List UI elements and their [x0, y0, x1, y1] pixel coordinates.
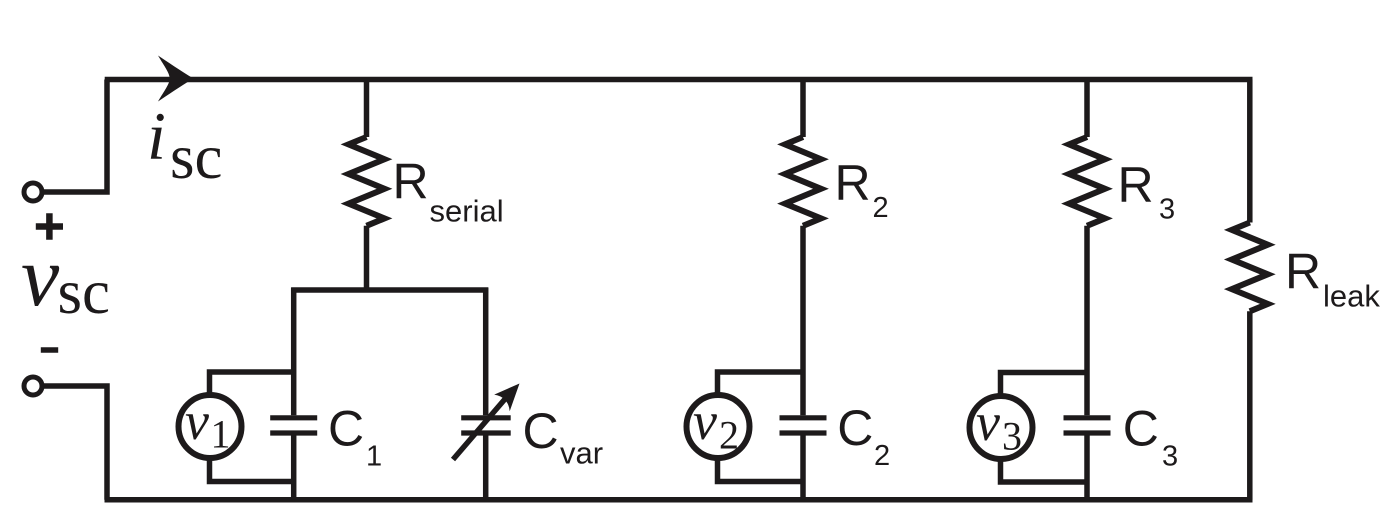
wire R2 top stub [800, 80, 806, 138]
wire lower-left terminal lead [44, 386, 107, 500]
wire right branch upper segment [1247, 80, 1253, 223]
wire C1/C_var box top [291, 287, 488, 293]
voltmeter v3 circle [970, 396, 1033, 459]
svg-text:sc: sc [58, 257, 110, 327]
svg-text:3: 3 [1002, 414, 1022, 459]
voltmeter v1 circle [179, 395, 242, 458]
resistor R2 [785, 137, 821, 226]
wire v2 meter top lead [718, 372, 804, 394]
svg-text:sc: sc [170, 122, 222, 192]
voltmeter v2 circle [687, 395, 750, 458]
terminal upper-left open circle [24, 183, 42, 201]
wire C3 to bottom rail [1084, 436, 1090, 500]
resistor R3 [1069, 137, 1105, 226]
svg-text:i: i [147, 98, 166, 174]
capacitor C_var arrowhead [494, 384, 519, 412]
minus sign [41, 347, 58, 353]
wire C2 to bottom rail [800, 436, 806, 500]
svg-text:R: R [1285, 243, 1321, 299]
wire C1 branch lower [291, 436, 297, 500]
svg-text:C: C [1123, 401, 1159, 457]
svg-text:3: 3 [1159, 194, 1175, 226]
wire upper-left terminal lead [44, 80, 107, 193]
capacitor C_var variable arrow shaft [453, 399, 505, 460]
plus sign [36, 213, 63, 240]
svg-text:2: 2 [873, 192, 889, 224]
wire C_var branch upper [483, 288, 489, 416]
svg-text:v: v [185, 391, 209, 451]
wire top rail [105, 77, 1253, 83]
svg-text:C: C [837, 400, 873, 456]
svg-text:var: var [560, 435, 603, 470]
terminal lower-left open circle [24, 377, 42, 395]
wire v3 meter bottom lead [1001, 460, 1088, 483]
wire bottom rail [105, 497, 1253, 503]
current arrow i_sc on top rail [158, 56, 194, 102]
wire C1 branch upper [291, 288, 297, 416]
wire v3 meter top lead [1001, 373, 1088, 395]
wire v1 meter bottom lead [210, 459, 294, 482]
capacitor C3 plates [1064, 418, 1111, 433]
svg-text:leak: leak [1323, 278, 1380, 313]
svg-text:2: 2 [719, 413, 739, 458]
wire R2 to C2 [800, 226, 806, 415]
svg-text:3: 3 [1162, 441, 1178, 473]
svg-text:C: C [523, 403, 559, 459]
wire R3 to C3 [1084, 226, 1090, 415]
capacitor C2 plates [780, 418, 827, 433]
svg-text:C: C [328, 401, 364, 457]
resistor R_leak [1232, 223, 1268, 312]
wire right branch lower segment [1247, 311, 1253, 499]
svg-text:serial: serial [430, 194, 504, 229]
svg-text:v: v [976, 392, 1000, 452]
svg-text:v: v [693, 391, 717, 451]
svg-text:1: 1 [366, 441, 382, 473]
svg-text:2: 2 [874, 440, 890, 472]
wire v1 meter top lead [210, 372, 294, 394]
svg-text:R: R [393, 154, 429, 210]
wire R_serial bottom stub [364, 226, 370, 290]
wire R3 top stub [1084, 80, 1090, 138]
capacitor C1 plates [270, 418, 317, 433]
svg-text:v: v [21, 228, 60, 324]
wire R_serial top stub [364, 80, 370, 138]
svg-text:R: R [835, 155, 871, 211]
resistor R_serial [349, 137, 385, 226]
svg-text:1: 1 [211, 412, 231, 457]
wire v2 meter bottom lead [718, 459, 804, 482]
svg-text:R: R [1118, 157, 1154, 213]
wire C_var branch lower [483, 436, 489, 500]
capacitor C_var plates [461, 418, 511, 433]
